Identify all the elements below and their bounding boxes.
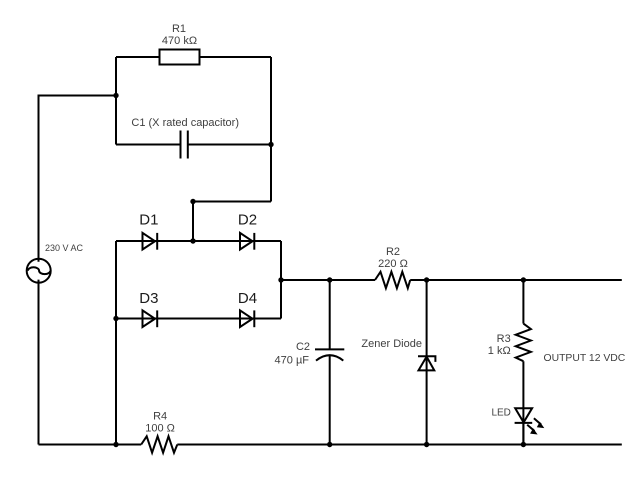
diode D4 xyxy=(240,310,254,327)
wire: bridge top rail xyxy=(116,240,281,242)
wire: C2 branch upper vertical xyxy=(329,280,331,349)
zener diode symbol xyxy=(418,356,435,370)
wire: bridge bottom rail xyxy=(116,318,281,320)
svg-text:R4: R4 xyxy=(153,410,167,422)
diode D2 xyxy=(240,233,254,250)
junction node: bottom rail / bridge left xyxy=(113,442,118,447)
svg-text:470 µF: 470 µF xyxy=(275,355,310,367)
diode D3 xyxy=(143,310,158,327)
wire: zener branch vertical xyxy=(426,280,428,445)
svg-text:C1 (X rated capacitor): C1 (X rated capacitor) xyxy=(131,117,239,129)
wire: top-left horizontal from left rail to R1/C1 block xyxy=(38,95,117,97)
junction node: bottom rail / C2 xyxy=(327,442,332,447)
svg-text:C2: C2 xyxy=(296,341,310,353)
svg-text:470 kΩ: 470 kΩ xyxy=(162,35,197,47)
wire: DC output top rail continues to right edge xyxy=(410,279,622,281)
svg-text:D1: D1 xyxy=(139,211,158,228)
junction node: bottom rail / LED xyxy=(521,442,526,447)
wire: bridge right vertical xyxy=(280,241,282,319)
svg-text:R3: R3 xyxy=(497,333,511,345)
junction node: jog corner xyxy=(190,199,195,204)
junction node: left rail / R1-C1 left vertical xyxy=(113,93,118,98)
svg-text:230 V AC: 230 V AC xyxy=(45,243,84,253)
junction node: bridge top center xyxy=(190,238,195,243)
svg-text:OUTPUT 12 VDC: OUTPUT 12 VDC xyxy=(544,353,626,364)
LED symbol xyxy=(515,408,545,434)
svg-text:R2: R2 xyxy=(386,246,400,258)
junction node: bridge bottom left xyxy=(113,316,118,321)
svg-text:D4: D4 xyxy=(238,290,257,307)
wire: R3/LED branch upper vertical xyxy=(522,280,524,324)
diode D1 xyxy=(143,233,158,250)
junction node: zener top xyxy=(424,277,429,282)
wire: R1/C1 left vertical xyxy=(115,57,117,145)
svg-text:R1: R1 xyxy=(172,23,186,35)
wire: C1 branch right segment xyxy=(188,144,271,146)
svg-text:LED: LED xyxy=(491,407,510,418)
junction node: C2 top xyxy=(327,277,332,282)
svg-text:100 Ω: 100 Ω xyxy=(145,423,175,435)
wire: between R3 and LED (passes through LED symbol) xyxy=(522,361,524,444)
junction node: C1 wire / right vertical xyxy=(268,142,273,147)
capacitor C1 (X rated) plates xyxy=(180,131,182,159)
wire: DC output top rail (from bridge to right edge) xyxy=(281,279,375,281)
wire: LED to bottom rail xyxy=(522,423,524,445)
svg-text:220 Ω: 220 Ω xyxy=(378,258,408,270)
junction node: R3 top xyxy=(521,277,526,282)
svg-text:D3: D3 xyxy=(139,290,158,307)
wire: C2 branch lower vertical xyxy=(329,356,331,445)
wire: bottom rail left segment xyxy=(39,444,142,446)
wire: R1 top horizontal xyxy=(116,56,271,58)
wire: R1/C1 right vertical down to jog xyxy=(270,57,272,202)
wire: bridge left vertical (down to bottom rail) xyxy=(115,241,117,445)
wire: jog horizontal into bridge top node xyxy=(193,201,271,203)
AC source (230 V AC) xyxy=(27,259,51,283)
svg-text:1 kΩ: 1 kΩ xyxy=(488,345,511,357)
wire: bottom rail right segment xyxy=(177,444,622,446)
junction node: bridge output right xyxy=(278,277,283,282)
junction node: bottom rail / zener xyxy=(424,442,429,447)
resistor R4 (zigzag) xyxy=(141,436,177,452)
wire: left rail lower vertical (AC source bottom to bottom rail) xyxy=(38,280,40,445)
wire: left rail upper vertical (to AC source top) xyxy=(38,96,40,262)
wire: C1 branch left segment xyxy=(116,144,181,146)
capacitor C2 (polarized) xyxy=(315,349,344,360)
resistor R1 (box) xyxy=(160,50,200,65)
resistor R2 (zigzag) xyxy=(375,272,410,288)
wire: jog vertical down to bridge top rail xyxy=(192,202,194,242)
svg-text:Zener Diode: Zener Diode xyxy=(361,338,422,350)
svg-text:D2: D2 xyxy=(238,211,257,228)
resistor R3 (vertical zigzag) xyxy=(516,324,531,362)
